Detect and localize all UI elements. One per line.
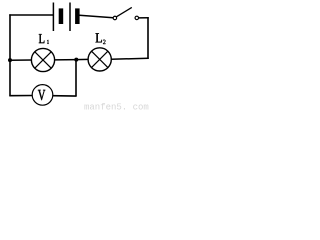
label L1 <box>39 34 49 44</box>
switch S right contact <box>135 16 139 20</box>
wire: battery to switch <box>79 15 113 18</box>
label L2 <box>96 33 106 44</box>
voltmeter V <box>32 85 53 106</box>
junction node between L1 and L2 <box>74 58 78 62</box>
battery cell 1 short thick plate <box>59 8 64 24</box>
wire: left rail vertical <box>9 14 11 96</box>
wire: lamp L1 to left rail <box>9 59 31 61</box>
wire: top-left horizontal <box>9 14 53 16</box>
svg-text:manfen5. com: manfen5. com <box>84 103 149 113</box>
lamp L2 <box>88 48 111 71</box>
battery cell 2 short thick plate <box>75 8 80 24</box>
wire: right corner to lamp L2 <box>111 57 149 60</box>
wire: bottom-right corner to voltmeter <box>53 95 77 97</box>
wire: voltmeter branch vertical <box>75 60 77 97</box>
wire: lamp L2 to junction <box>76 58 88 60</box>
switch S blade (open) <box>116 7 131 16</box>
battery cell 1 long plate <box>52 3 54 32</box>
junction node on left rail <box>8 58 12 62</box>
lamp L1 <box>31 48 54 71</box>
battery cell 2 long plate <box>69 3 71 32</box>
wire: voltmeter to left rail <box>9 95 32 97</box>
wire: right rail vertical <box>147 17 149 59</box>
wire: junction to lamp L1 <box>55 59 77 61</box>
wire: switch to top-right corner <box>139 17 149 19</box>
switch S left contact <box>113 16 117 20</box>
